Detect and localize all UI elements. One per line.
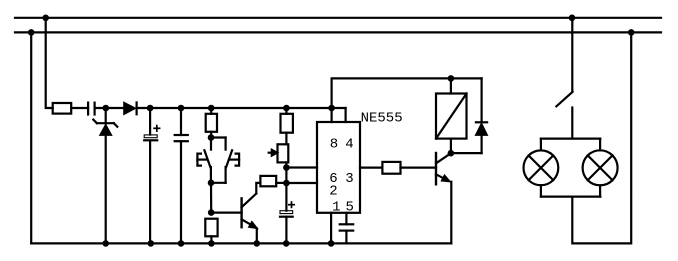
wire: pin6 node to pin2 node [285, 168, 287, 184]
svg-text:1: 1 [332, 199, 340, 215]
wire: R7 to pin2 node [276, 182, 286, 184]
node: junction top rail / switch S1 feed [569, 14, 576, 21]
wire: relay coil bottom to Q2 collector node [450, 139, 452, 154]
node: junction pin 6 [283, 164, 290, 171]
node: C2 to ground rail [148, 240, 155, 247]
svg-text:5: 5 [345, 199, 353, 215]
wire: Q1 collector up to R7 [256, 183, 260, 194]
wire: contact pair to base node [210, 183, 212, 213]
node: zener tap junction [103, 105, 110, 112]
resistor R1 [53, 103, 71, 114]
op-amp U1 NE555 body [317, 122, 360, 213]
node: junction R3 / Q1 base [208, 209, 215, 216]
pin labels 1 5 [332, 199, 354, 215]
node: top of contact pair [208, 134, 215, 141]
wire: pin 6 to pin6 node [286, 166, 317, 168]
pin labels 8 4 [330, 137, 354, 153]
wire: base node to Q1 base [211, 212, 241, 214]
wire: lamp return to second rail [572, 32, 631, 243]
resistor R7 [260, 176, 276, 186]
wire: R1 to C1 series capacitor [71, 107, 88, 109]
wire: feed to relay coil top [450, 78, 452, 93]
wire: top rail to switch S1 [571, 18, 573, 91]
capacitor C1 (series) [88, 103, 95, 115]
wire: D2 anode to collector node [451, 152, 482, 154]
wire: pin 4 to main node [345, 108, 347, 122]
node: junction main node / R2 column [208, 105, 215, 112]
wire: main node up and over to relay K1 and D2 [332, 78, 482, 108]
svg-text:3: 3 [345, 171, 353, 187]
node: C4 to ground rail [283, 240, 290, 247]
node: junction top rail / feed to R1 [42, 14, 49, 21]
relay K1 coil [436, 94, 467, 139]
wire: bottom ground rail [31, 242, 451, 244]
diode D1 [124, 102, 137, 114]
resistor R2 [206, 114, 217, 132]
wire: main node to R2 [210, 108, 212, 114]
capacitor C2 (electrolytic) [144, 108, 159, 243]
svg-text:4: 4 [345, 137, 353, 153]
switch S2 contact b fixed terminal [230, 154, 239, 166]
wire: R6 to Q2 base [401, 167, 437, 169]
trimmer P1 [269, 144, 289, 162]
pin labels 6 3 [329, 171, 353, 187]
transistor Q2 [436, 153, 451, 184]
resistor R3 [205, 219, 217, 237]
resistor R6 [382, 162, 400, 174]
wire: pin 3 to R6 [360, 167, 382, 169]
wire: pin 8 to main node [331, 108, 333, 122]
switch S2 contact a (left) [204, 138, 211, 183]
label NE555 [361, 111, 403, 127]
node: junction main node / C2 [147, 105, 154, 112]
wire: second supply rail [15, 31, 661, 33]
wire: main supply node after D1 [137, 107, 346, 109]
node: junction main node / pin 8 and relay feed [328, 105, 335, 112]
wire: pin 5 to C5 [345, 213, 347, 225]
svg-text:2: 2 [329, 183, 337, 199]
node: bottom of contact pair [208, 180, 215, 187]
svg-text:8: 8 [330, 137, 338, 153]
wire: drop from top rail to R1 [46, 18, 53, 108]
node: R3 to ground rail [208, 240, 215, 247]
node: Q1 emitter at ground rail [253, 240, 260, 247]
switch S1 [556, 92, 572, 139]
switch S2 contact b (right) [211, 138, 232, 183]
capacitor C5 [340, 224, 354, 243]
lamp LA1 [524, 139, 559, 197]
wire: lamp top bus [541, 138, 600, 140]
wire: Q1 emitter to ground rail [256, 228, 258, 243]
node: pin 1 at ground rail [328, 240, 335, 247]
svg-text:NE555: NE555 [361, 111, 403, 127]
resistor R4 [281, 114, 293, 133]
wire: C1 to diode D1 with zener tap [95, 107, 124, 109]
node: C3 to ground rail [178, 240, 185, 247]
transistor Q1 [242, 194, 258, 229]
wire: P1 to pin6 node [285, 162, 287, 167]
capacitor C3 [175, 108, 188, 243]
wire: left vertical down to bottom rail [30, 32, 32, 243]
wire: pin 1 to ground rail [330, 213, 332, 244]
node: junction second rail / lamp return [628, 29, 635, 36]
node: junction relay feed [448, 75, 455, 82]
diode D2 (freewheel) [476, 78, 488, 153]
pin label 2 [329, 183, 337, 199]
wire: main node to R4 [285, 108, 287, 114]
node: zener to ground rail [102, 240, 109, 247]
node: Q2 collector / relay / D2 [448, 150, 455, 157]
wire: pin2 node to C4 [285, 183, 287, 211]
node: junction main node / C3 [178, 105, 185, 112]
lamp LA2 [583, 139, 618, 197]
wire: pin 2 to pin2 node [286, 182, 317, 184]
wire: +12V top rail [15, 17, 661, 19]
switch S2 contact a fixed terminal [197, 154, 206, 166]
capacitor C4 (electrolytic) [280, 202, 294, 243]
zener diode ZD1 [93, 108, 117, 243]
node: junction second rail / left ground drop [28, 29, 35, 36]
wire: R2 to contact pair [210, 132, 212, 138]
node: junction pin 2 [283, 180, 290, 187]
node: junction main node / R4 column [283, 105, 290, 112]
wire: lamp bottom bus [541, 196, 600, 198]
wire: R4 to trimmer P1 [285, 133, 287, 145]
wire: Q2 emitter down to ground rail [450, 182, 452, 244]
wire: R3 to ground rail [210, 236, 212, 243]
